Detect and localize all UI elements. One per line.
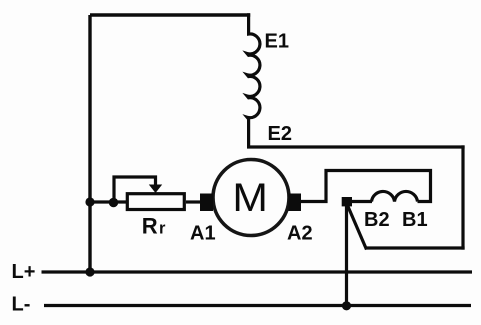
wire diagonal to junction bbox=[347, 203, 367, 250]
rheostat wiper arrowhead bbox=[149, 185, 162, 194]
wire top horizontal bbox=[90, 13, 250, 16]
svg-text:E2: E2 bbox=[268, 123, 292, 145]
wire E2 to right (horizontal) bbox=[247, 145, 465, 148]
inductor B commutating winding (2 bumps) bbox=[372, 191, 418, 201]
svg-text:L-: L- bbox=[12, 294, 31, 316]
rail L+ bbox=[42, 270, 473, 273]
svg-text:r: r bbox=[159, 219, 166, 237]
svg-text:L+: L+ bbox=[12, 261, 36, 283]
svg-text:B1: B1 bbox=[402, 209, 428, 231]
wire outer right vertical bbox=[461, 145, 464, 249]
wire outer bottom horizontal bbox=[365, 246, 465, 249]
rheostat wiper wire bbox=[114, 177, 156, 202]
wire B winding to inner loop bbox=[301, 171, 431, 202]
motor U1 circle bbox=[213, 160, 289, 236]
wire node to rheostat left bbox=[88, 200, 127, 203]
node junction (square dot) bbox=[342, 197, 352, 206]
inductor E field winding (4 loops) bbox=[247, 13, 260, 147]
node dot on L- rail bbox=[342, 301, 351, 310]
svg-text:B2: B2 bbox=[364, 209, 390, 231]
wire left vertical (from top frame down to L+) bbox=[88, 15, 91, 272]
svg-text:M: M bbox=[232, 176, 268, 220]
motor letter M bbox=[232, 176, 268, 220]
rheostat Rr body bbox=[127, 194, 184, 210]
svg-text:R: R bbox=[142, 213, 158, 238]
brush terminal A1 (black square) bbox=[200, 194, 213, 212]
node dot at wiper tap bbox=[109, 198, 118, 207]
node dot on L+ rail bbox=[85, 267, 94, 276]
wire rheostat to A1 bbox=[186, 200, 201, 203]
svg-text:A1: A1 bbox=[190, 223, 216, 245]
node dot at left vertical bbox=[85, 197, 94, 206]
wire junction to B winding bbox=[347, 200, 373, 203]
brush terminal A2 (black square) bbox=[289, 194, 302, 212]
svg-text:A2: A2 bbox=[287, 223, 313, 245]
rail L- bbox=[44, 304, 471, 307]
wire junction down to L- rail bbox=[345, 202, 348, 306]
svg-text:E1: E1 bbox=[265, 31, 289, 53]
